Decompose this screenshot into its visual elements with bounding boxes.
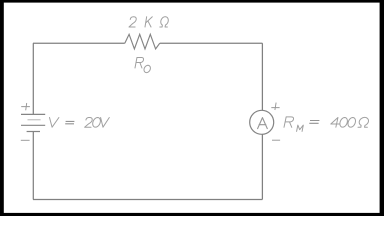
ammeter plus sign (271, 103, 279, 110)
border frame left (0, 0, 4, 216)
wire: bottom wire (33, 198, 262, 200)
wire: top wire left segment (33, 42, 125, 44)
ammeter U1 circle (250, 110, 274, 134)
wire: left wire upper (top to battery) (32, 43, 34, 114)
wire: right wire lower (261, 134, 263, 199)
ammeter label A (258, 118, 268, 129)
wire: right wire upper (to ammeter) (261, 43, 263, 110)
label RM = 400 Ohm (meter resistance) (284, 117, 303, 131)
battery V1 short plate bottom (27, 131, 40, 133)
battery V1 long plate top (21, 113, 45, 115)
equals sign (V label) (65, 121, 74, 123)
ammeter minus sign (272, 139, 280, 141)
wire: left wire lower (battery to bottom) (32, 132, 34, 200)
border frame bottom (0, 213, 384, 216)
equals sign (RM label) (309, 121, 319, 124)
border frame right (380, 0, 384, 216)
resistor RO zigzag (125, 34, 160, 49)
label RO (resistor name) (135, 58, 150, 73)
battery plus sign (21, 103, 30, 110)
border frame top (0, 0, 384, 3)
wire: top wire right segment (160, 42, 263, 44)
label V = 20V (source value) (50, 118, 59, 128)
battery V1 thin middle line (28, 119, 41, 121)
label 2 K Ohm (resistor value) (129, 17, 168, 27)
battery minus sign (21, 139, 30, 141)
battery V1 long plate middle (21, 124, 45, 126)
